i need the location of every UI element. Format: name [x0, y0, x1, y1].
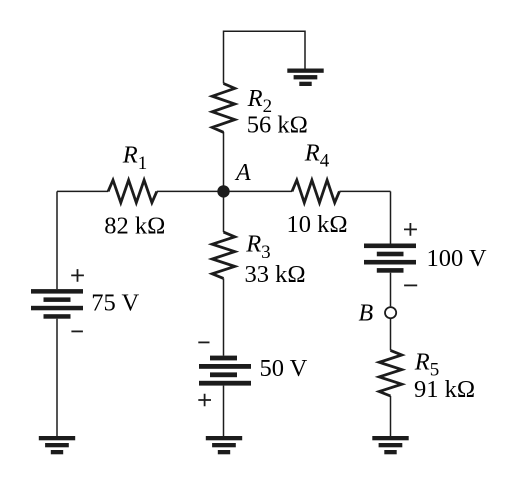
svg-text:R1: R1: [122, 142, 147, 174]
svg-text:50 V: 50 V: [260, 355, 308, 382]
svg-text:B: B: [359, 301, 374, 327]
svg-text:10 kΩ: 10 kΩ: [287, 211, 348, 238]
svg-text:91 kΩ: 91 kΩ: [414, 376, 475, 403]
svg-text:82 kΩ: 82 kΩ: [104, 213, 165, 240]
svg-text:75 V: 75 V: [91, 290, 139, 317]
svg-text:33 kΩ: 33 kΩ: [245, 261, 306, 288]
svg-text:56 kΩ: 56 kΩ: [247, 112, 308, 139]
svg-text:R4: R4: [304, 139, 330, 171]
svg-text:R3: R3: [245, 231, 270, 263]
svg-text:A: A: [234, 160, 251, 186]
svg-text:100 V: 100 V: [427, 245, 487, 272]
